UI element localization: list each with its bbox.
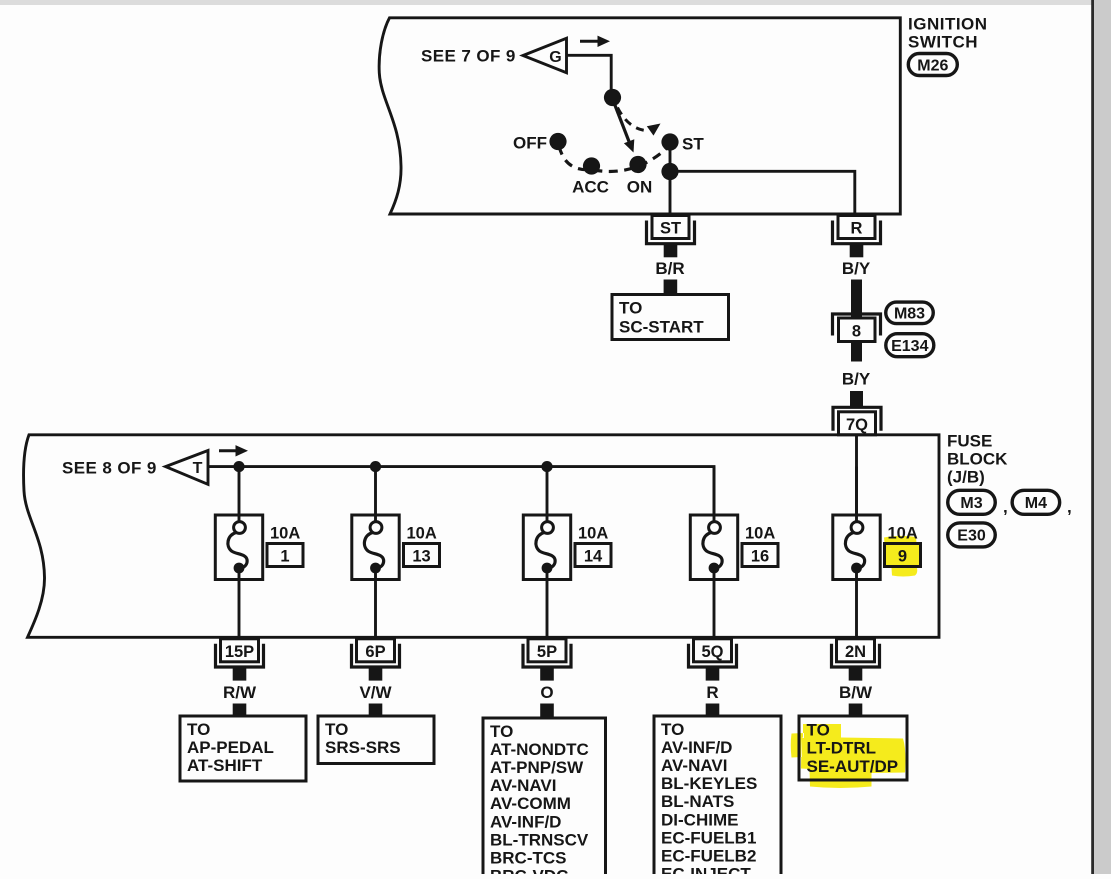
svg-text:5Q: 5Q bbox=[701, 643, 723, 661]
connector terminal ST (M26 pin) bbox=[647, 216, 695, 258]
fuse F16 10A bbox=[690, 467, 778, 638]
svg-text:BL-NATS: BL-NATS bbox=[661, 792, 734, 811]
inline connector 8 bbox=[833, 314, 881, 342]
svg-text:2N: 2N bbox=[845, 643, 866, 661]
svg-text:ST: ST bbox=[660, 220, 681, 238]
svg-text:TO: TO bbox=[325, 720, 348, 739]
svg-text:SEE 7 OF 9: SEE 7 OF 9 bbox=[421, 47, 516, 66]
svg-text:M83: M83 bbox=[894, 306, 925, 323]
connector oval M4 bbox=[1012, 490, 1072, 516]
svg-text:M26: M26 bbox=[917, 57, 948, 74]
wire label R bbox=[706, 683, 718, 702]
svg-text:BRC-TCS: BRC-TCS bbox=[490, 849, 567, 868]
svg-text:TO: TO bbox=[490, 722, 513, 741]
svg-text:ST: ST bbox=[682, 135, 704, 154]
svg-text:BLOCK: BLOCK bbox=[947, 450, 1008, 469]
svg-text:(J/B): (J/B) bbox=[947, 468, 985, 487]
junction dot bus / fuse 14 bbox=[541, 461, 552, 472]
fuse block enclosure box bbox=[24, 435, 939, 638]
wire stub above destination box 15P bbox=[233, 704, 247, 717]
direction arrow at G bbox=[580, 36, 610, 47]
svg-text:B/R: B/R bbox=[655, 259, 684, 278]
svg-text:TO: TO bbox=[661, 720, 684, 739]
wire stub above destination box 5Q bbox=[706, 704, 720, 717]
wire stub above TO SC-START bbox=[664, 280, 678, 294]
connector terminal 5Q bbox=[689, 639, 737, 681]
thick wire R to inline connector 8 bbox=[851, 280, 862, 319]
connector terminal 7Q (fuse block input) bbox=[833, 407, 881, 435]
svg-text:BL-KEYLES: BL-KEYLES bbox=[661, 774, 757, 793]
connector terminal 2N bbox=[832, 639, 880, 681]
svg-text:7Q: 7Q bbox=[846, 416, 868, 434]
wire label B/Y bbox=[842, 259, 871, 278]
svg-text:15P: 15P bbox=[225, 643, 254, 661]
wire label B/R bbox=[655, 259, 684, 278]
svg-text:ON: ON bbox=[627, 178, 653, 197]
svg-text:8: 8 bbox=[852, 323, 861, 341]
svg-text:13: 13 bbox=[412, 548, 430, 566]
junction dot below ST bbox=[661, 163, 678, 180]
svg-text:DI-CHIME: DI-CHIME bbox=[661, 810, 738, 829]
connector oval E30 bbox=[948, 523, 996, 547]
box TO AT/AV/BL/BRC list bbox=[483, 718, 606, 879]
wire ST contact down to ST terminal bbox=[669, 142, 672, 214]
svg-text:M3: M3 bbox=[960, 495, 982, 512]
svg-text:T: T bbox=[193, 460, 203, 477]
svg-text:ACC: ACC bbox=[572, 178, 609, 197]
bus wire from triangle T bbox=[208, 467, 714, 515]
svg-text:B/Y: B/Y bbox=[842, 259, 871, 278]
svg-text:10A: 10A bbox=[270, 525, 300, 543]
connector oval M3 bbox=[948, 490, 1008, 516]
contact dot ACC bbox=[572, 157, 609, 196]
box TO SC-START bbox=[612, 295, 729, 340]
box TO AV/BL/DI/EC list bbox=[654, 716, 781, 879]
svg-text:R/W: R/W bbox=[223, 683, 257, 702]
svg-text:5P: 5P bbox=[537, 643, 557, 661]
svg-text:AV-COMM: AV-COMM bbox=[490, 794, 571, 813]
svg-text:SE-AUT/DP: SE-AUT/DP bbox=[807, 757, 899, 776]
svg-text:TO: TO bbox=[807, 721, 830, 740]
svg-text:9: 9 bbox=[898, 548, 907, 566]
svg-text:BRC-VDC: BRC-VDC bbox=[490, 867, 568, 874]
page right edge bar bbox=[1091, 0, 1111, 874]
svg-text:EC-FUELB2: EC-FUELB2 bbox=[661, 847, 756, 866]
svg-text:AT-PNP/SW: AT-PNP/SW bbox=[490, 758, 584, 777]
switch pivot contact dot bbox=[604, 89, 621, 106]
page top edge strip bbox=[0, 0, 1111, 5]
direction arrow at T bbox=[219, 445, 248, 456]
wire stub above 7Q bbox=[850, 391, 863, 406]
svg-text:TO: TO bbox=[187, 720, 210, 739]
junction dot bus / fuse 13 bbox=[370, 461, 381, 472]
svg-text:E30: E30 bbox=[957, 528, 986, 545]
svg-text:R: R bbox=[851, 220, 863, 238]
svg-text:SWITCH: SWITCH bbox=[908, 33, 978, 52]
wire label B/W bbox=[839, 683, 873, 702]
wire label V/W bbox=[359, 683, 392, 702]
fuse F13 10A bbox=[352, 467, 440, 638]
svg-text:16: 16 bbox=[751, 548, 769, 566]
contact dot ST bbox=[661, 133, 704, 153]
svg-text:V/W: V/W bbox=[359, 683, 392, 702]
highlighter mark on TO LT-DTRL SE-AUT/DP box bbox=[791, 724, 906, 788]
svg-text:1: 1 bbox=[280, 548, 289, 566]
svg-text:AV-NAVI: AV-NAVI bbox=[490, 776, 556, 795]
svg-text:10A: 10A bbox=[745, 525, 775, 543]
svg-text:AP-PEDAL: AP-PEDAL bbox=[187, 738, 274, 757]
svg-text:IGNITION: IGNITION bbox=[908, 15, 988, 34]
svg-text:FUSE: FUSE bbox=[947, 432, 992, 451]
label IGNITION SWITCH bbox=[908, 15, 988, 52]
svg-text:AV-INF/D: AV-INF/D bbox=[490, 812, 561, 831]
wire stub above destination box 2N bbox=[849, 704, 863, 717]
svg-text:,: , bbox=[1003, 498, 1008, 517]
svg-text:AT-SHIFT: AT-SHIFT bbox=[187, 756, 263, 775]
svg-text:AT-NONDTC: AT-NONDTC bbox=[490, 740, 589, 759]
svg-text:,: , bbox=[1067, 498, 1072, 517]
highlighter mark on fuse 9 label bbox=[884, 536, 920, 577]
svg-text:G: G bbox=[549, 49, 561, 66]
svg-text:B/W: B/W bbox=[839, 683, 873, 702]
svg-text:6P: 6P bbox=[365, 643, 385, 661]
wire label B/Y lower bbox=[842, 370, 871, 389]
label FUSE BLOCK (J/B) bbox=[947, 432, 1008, 487]
svg-text:OFF: OFF bbox=[513, 134, 547, 153]
off-page reference triangle G, SEE 7 OF 9 bbox=[421, 38, 567, 72]
connector terminal R (M26 pin) bbox=[833, 216, 881, 258]
box TO LT-DTRL SE-AUT/DP bbox=[799, 716, 907, 780]
wire from G triangle to switch pivot bbox=[567, 55, 612, 97]
svg-text:BL-TRNSCV: BL-TRNSCV bbox=[490, 830, 589, 849]
connector terminal 6P bbox=[352, 639, 400, 681]
svg-text:10A: 10A bbox=[407, 525, 437, 543]
switch dashed travel arc with arrow to ST bbox=[618, 108, 661, 136]
svg-text:EC-FUELB1: EC-FUELB1 bbox=[661, 828, 756, 847]
svg-text:M4: M4 bbox=[1025, 495, 1047, 512]
connector terminal 5P bbox=[523, 639, 571, 681]
fuse F9 10A highlighted bbox=[833, 467, 921, 638]
connector terminal 15P bbox=[216, 639, 264, 681]
wire stub above destination box 5P bbox=[540, 704, 554, 717]
off-page reference triangle T, SEE 8 OF 9 bbox=[62, 451, 208, 485]
connector oval M83 bbox=[886, 302, 934, 324]
svg-text:E134: E134 bbox=[891, 338, 928, 355]
svg-text:10A: 10A bbox=[578, 525, 608, 543]
svg-text:SEE 8 OF 9: SEE 8 OF 9 bbox=[62, 459, 157, 478]
svg-text:14: 14 bbox=[584, 548, 603, 566]
svg-text:O: O bbox=[540, 683, 553, 702]
fuse F14 10A bbox=[523, 467, 611, 638]
wire label R/W bbox=[223, 683, 257, 702]
connector oval E134 bbox=[886, 334, 934, 357]
svg-text:LT-DTRL: LT-DTRL bbox=[807, 739, 877, 758]
wire junction to R terminal bbox=[670, 171, 855, 214]
svg-text:B/Y: B/Y bbox=[842, 370, 871, 389]
svg-text:AV-NAVI: AV-NAVI bbox=[661, 756, 727, 775]
wire stub above destination box 6P bbox=[369, 704, 383, 717]
box TO SRS-SRS bbox=[318, 716, 434, 764]
svg-text:10A: 10A bbox=[888, 525, 918, 543]
svg-text:SC-START: SC-START bbox=[619, 318, 704, 337]
ignition switch enclosure box bbox=[379, 18, 900, 214]
junction dot bus / fuse 1 bbox=[233, 461, 244, 472]
dashed detent arc OFF-ACC-ON-ST bbox=[559, 146, 669, 171]
svg-text:EC-INJECT: EC-INJECT bbox=[661, 865, 751, 874]
box TO AP-PEDAL AT-SHIFT bbox=[180, 716, 306, 781]
svg-text:AV-INF/D: AV-INF/D bbox=[661, 738, 732, 757]
wire 7Q down to fuse 9 bbox=[855, 435, 858, 515]
switch arm solid arrow to ON bbox=[615, 104, 635, 153]
fuse F1 10A bbox=[215, 467, 303, 638]
thick wire below connector 8 bbox=[851, 342, 862, 362]
connector oval M26 bbox=[908, 54, 957, 76]
wire label O bbox=[540, 683, 553, 702]
svg-text:R: R bbox=[706, 683, 718, 702]
contact dot ON bbox=[627, 156, 653, 197]
svg-text:TO: TO bbox=[619, 299, 642, 318]
contact dot OFF bbox=[513, 133, 567, 153]
svg-text:SRS-SRS: SRS-SRS bbox=[325, 738, 401, 757]
